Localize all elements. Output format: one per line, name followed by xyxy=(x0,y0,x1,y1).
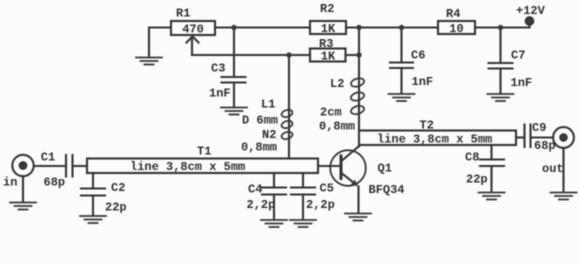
svg-text:2cm: 2cm xyxy=(320,106,342,120)
capacitor C9 (68p) xyxy=(525,125,531,148)
ground under out connector xyxy=(551,193,577,200)
stripline T1 xyxy=(87,159,318,174)
wire top rail segment R1 to R2 xyxy=(215,26,310,28)
capacitor C7 (1nF) xyxy=(489,28,513,94)
resistor R3 (1K) xyxy=(310,49,346,62)
capacitor C3 (1nF) xyxy=(222,28,246,108)
node junction wiper rail at L1 xyxy=(286,52,291,57)
svg-text:line 3,8cm x 5mm: line 3,8cm x 5mm xyxy=(377,133,492,147)
svg-text:L2: L2 xyxy=(330,77,344,91)
svg-text:L1: L1 xyxy=(261,98,275,112)
svg-text:1nF: 1nF xyxy=(209,87,231,101)
inductor L2 xyxy=(350,77,365,131)
svg-text:0,8mm: 0,8mm xyxy=(241,141,277,155)
capacitor C5 (2,2p) xyxy=(291,173,315,220)
svg-text:Q1: Q1 xyxy=(378,162,392,176)
svg-text:T2: T2 xyxy=(420,119,434,133)
svg-text:R2: R2 xyxy=(320,2,334,16)
svg-text:out: out xyxy=(542,162,564,176)
svg-text:D 6mm: D 6mm xyxy=(242,114,278,128)
svg-text:C5: C5 xyxy=(320,182,334,196)
input connector (in) xyxy=(12,155,33,202)
node junction top rail at C6 xyxy=(399,25,404,30)
ground under Q1 emitter xyxy=(345,214,371,221)
ground under C7 xyxy=(488,94,514,101)
svg-text:R4: R4 xyxy=(446,7,460,21)
wire R3 right to L2 line xyxy=(346,54,360,56)
wire top rail segment R4 to +12V xyxy=(475,26,530,28)
transistor Q1 (BFQ34) xyxy=(330,145,366,213)
+12V terminal xyxy=(526,17,534,27)
capacitor C8 (22p) xyxy=(480,145,504,192)
wire in to C1 xyxy=(34,165,66,167)
svg-text:C8: C8 xyxy=(465,151,479,165)
resistor R4 (10) xyxy=(438,21,475,34)
ground under C6 xyxy=(389,94,415,101)
wire T1 to base of Q1 xyxy=(318,165,340,167)
wire wiper rail to R3 xyxy=(192,54,310,56)
svg-text:470: 470 xyxy=(182,23,204,37)
resistor R1 (trimmer 470) xyxy=(171,21,215,55)
svg-text:BFQ34: BFQ34 xyxy=(369,183,405,197)
ground under C5 xyxy=(290,220,316,227)
node junction top rail at L2 xyxy=(356,25,361,30)
ground under C2 xyxy=(80,216,106,223)
capacitor C1 (68p) xyxy=(66,155,73,177)
resistor R2 (1K) xyxy=(310,21,346,34)
svg-text:68p: 68p xyxy=(44,176,66,190)
svg-text:22p: 22p xyxy=(105,201,127,215)
svg-text:2,2p: 2,2p xyxy=(306,198,335,212)
svg-text:1nF: 1nF xyxy=(511,76,533,90)
node junction top rail at C7 xyxy=(498,25,503,30)
svg-text:C4: C4 xyxy=(248,183,262,197)
wire C1 to T1 xyxy=(73,165,88,167)
ground under C4 xyxy=(261,220,287,227)
svg-text:C7: C7 xyxy=(511,49,525,63)
svg-text:C9: C9 xyxy=(532,121,546,135)
svg-text:C2: C2 xyxy=(111,181,125,195)
ground under in connector xyxy=(10,203,36,210)
svg-text:line 3,8cm x 5mm: line 3,8cm x 5mm xyxy=(130,160,245,174)
svg-text:22p: 22p xyxy=(466,173,488,187)
svg-text:1K: 1K xyxy=(321,49,336,63)
capacitor C4 (2,2p) xyxy=(262,173,286,220)
svg-text:2,2p: 2,2p xyxy=(247,198,276,212)
svg-text:in: in xyxy=(3,176,17,190)
capacitor C6 (1nF) xyxy=(390,28,413,94)
svg-text:C3: C3 xyxy=(211,62,225,76)
wire T2 to C9 xyxy=(516,136,525,138)
inductor L1 xyxy=(281,55,294,159)
svg-text:C1: C1 xyxy=(41,151,55,165)
svg-text:1K: 1K xyxy=(321,22,336,36)
svg-text:R1: R1 xyxy=(176,7,190,21)
svg-text:10: 10 xyxy=(449,22,463,36)
output connector (out) xyxy=(553,127,574,192)
svg-text:68p: 68p xyxy=(534,139,556,153)
svg-text:+12V: +12V xyxy=(516,4,546,18)
node junction R3 output at L2 xyxy=(356,52,361,57)
svg-text:T1: T1 xyxy=(197,145,211,159)
svg-text:C6: C6 xyxy=(411,49,425,63)
svg-text:0,8mm: 0,8mm xyxy=(319,120,355,134)
wire vertical node x359 from top rail to L2 xyxy=(358,28,360,79)
ground left of R1 xyxy=(136,58,162,65)
ground under C3 xyxy=(221,108,247,115)
ground under C8 xyxy=(479,193,505,200)
node junction top rail at C3 xyxy=(231,25,236,30)
wire top rail segment R2 to R4 xyxy=(346,26,438,28)
capacitor C2 (22p) xyxy=(81,173,105,216)
wire C9 to out connector xyxy=(531,136,554,138)
wire R1 left to ground xyxy=(149,28,171,58)
svg-text:1nF: 1nF xyxy=(412,75,434,89)
stripline T2 xyxy=(359,131,516,146)
